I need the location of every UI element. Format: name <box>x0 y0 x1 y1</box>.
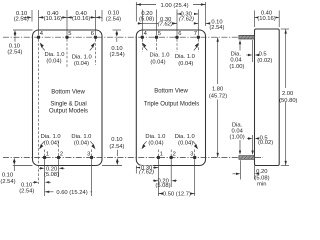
dim 0.20 min: pin tip ext <box>240 160 242 179</box>
dia leader pin3 (bottom) <box>193 141 196 144</box>
ext pin1 down <box>157 160 159 197</box>
right package bottom pin 2 <box>170 156 173 159</box>
svg-text:(10.16): (10.16) <box>44 16 62 22</box>
top pin-row centerline <box>3 36 239 38</box>
dia leader pin3 (bottom) <box>90 141 93 144</box>
ext line pin7 up <box>197 10 199 36</box>
svg-text:(0.04): (0.04) <box>46 59 61 65</box>
dia leader pin7 <box>194 47 197 50</box>
svg-text:(0.04): (0.04) <box>74 61 89 67</box>
ext line pin4 up <box>141 10 143 36</box>
dim 0.20 pins1-2: arrows outside <box>153 180 154 182</box>
ext line pin6 up <box>176 10 178 36</box>
pin3 dashed centerline up <box>91 150 93 156</box>
svg-text:1: 1 <box>46 152 49 158</box>
dim 0.40 line <box>255 16 280 18</box>
ext pin1 down <box>44 160 46 197</box>
left package outline <box>33 30 103 166</box>
svg-text:0.50 (12.7): 0.50 (12.7) <box>163 192 191 198</box>
dim 0.60 label <box>54 189 91 195</box>
svg-text:0.60 (15.24): 0.60 (15.24) <box>56 190 87 196</box>
dim 0.50 pins1-3: line <box>158 193 194 195</box>
svg-text:(0.04): (0.04) <box>74 141 89 147</box>
lower dim line (0.20 / 0.30 mid) <box>138 22 177 24</box>
dim 0.5 bottom: shoulder line <box>252 135 254 151</box>
svg-text:(0.04): (0.04) <box>178 141 193 147</box>
svg-text:(5.08): (5.08) <box>44 172 59 178</box>
svg-text:(2.54): (2.54) <box>19 189 34 195</box>
dia 0.04 bottom leader <box>239 140 241 151</box>
pin1 dashed centerline up <box>44 150 46 156</box>
dia leader pin4 <box>42 47 45 50</box>
right pkg pin2 dashed up <box>170 150 172 156</box>
right side: tick aligned with top edge <box>113 29 122 31</box>
svg-text:6: 6 <box>91 31 94 37</box>
ext line pin5 up <box>156 10 158 36</box>
side view top pin <box>239 35 255 39</box>
svg-text:(0.02): (0.02) <box>258 140 273 146</box>
dim 0.20 pins1-2: arrows outside <box>39 167 40 169</box>
svg-text:1: 1 <box>160 152 163 158</box>
ext line left edge top <box>135 2 137 22</box>
bottom pin-row centerline inside side view <box>255 157 263 159</box>
svg-text:(0.04): (0.04) <box>44 141 59 147</box>
svg-text:(7.62): (7.62) <box>139 170 154 176</box>
svg-text:Dia.: Dia. <box>231 51 242 57</box>
right pkg pin4 dashed down <box>141 39 143 52</box>
right package bottom pin 3 <box>193 156 196 159</box>
right side arrows (inside, pointing out) <box>116 30 119 34</box>
bottom pin-row centerline <box>3 157 239 159</box>
svg-text:0.5: 0.5 <box>259 52 267 58</box>
svg-text:(1.00): (1.00) <box>229 64 244 70</box>
right package top pin 4 <box>141 36 144 39</box>
svg-text:(2.54): (2.54) <box>109 144 124 150</box>
svg-text:Triple Output Models: Triple Output Models <box>144 102 199 108</box>
svg-text:(1.00): (1.00) <box>230 134 245 140</box>
dim 0.10 pin4-pin1 offset: arrows outside <box>33 181 34 183</box>
right package top pin 5 <box>155 36 158 39</box>
dim 0.50 label <box>163 191 190 197</box>
ext line pin4 up <box>38 10 40 35</box>
side view body outline <box>255 29 280 166</box>
pin4 long dashed centerline down (left pkg) <box>38 39 40 184</box>
svg-text:(2.54): (2.54) <box>14 17 29 23</box>
side view body left edge lower extension <box>253 166 255 180</box>
svg-text:7: 7 <box>194 31 197 37</box>
svg-text:(2.54): (2.54) <box>0 179 15 185</box>
svg-text:Dia. 1.0: Dia. 1.0 <box>41 134 61 140</box>
svg-text:(2.54): (2.54) <box>7 50 22 56</box>
svg-text:(10.16): (10.16) <box>72 16 90 22</box>
svg-text:(0.04): (0.04) <box>178 61 193 67</box>
svg-text:Dia. 1.0: Dia. 1.0 <box>150 53 170 59</box>
svg-text:(0.02): (0.02) <box>257 58 272 64</box>
ext left edge down <box>135 166 137 174</box>
svg-text:0.10: 0.10 <box>2 172 13 178</box>
dim 0.20 min arrows <box>233 173 236 175</box>
left package top pin 6 <box>94 36 97 39</box>
svg-text:(50.80): (50.80) <box>279 98 297 104</box>
svg-text:(7.62): (7.62) <box>179 17 194 23</box>
left package bottom pin 3 <box>90 156 93 159</box>
dim 0.30 pin6-pin7: line level A <box>177 13 198 15</box>
svg-text:Dia. 1.0: Dia. 1.0 <box>71 134 91 140</box>
svg-text:(10.16): (10.16) <box>257 16 275 22</box>
right pkg pin3 dashed up <box>194 150 196 156</box>
dim 0.10 pin7-edge: line + outside arrows <box>194 22 198 24</box>
svg-text:(2.54): (2.54) <box>106 16 121 22</box>
svg-text:Dia. 1.0: Dia. 1.0 <box>145 134 165 140</box>
right pkg pin5 dashed down <box>156 39 158 52</box>
dia leader pin6 <box>90 47 93 50</box>
right pkg pin7 dashed down <box>197 39 199 52</box>
pin6 dashed centerline down <box>95 39 97 65</box>
svg-text:Bottom View: Bottom View <box>51 90 85 96</box>
left side arrows (inside, pointing out) <box>14 30 17 34</box>
dim 0.10 vertical pin row to bottom edge (right side of left pkg) <box>102 165 122 167</box>
dim 0.30 labels <box>140 165 153 169</box>
svg-text:3: 3 <box>190 152 193 158</box>
svg-text:(2.54): (2.54) <box>209 25 224 31</box>
svg-text:0.20: 0.20 <box>256 169 267 175</box>
ext line right edge top <box>205 2 207 26</box>
dim 0.30 right labels <box>181 11 194 15</box>
dim 1.00 overall: line <box>136 4 205 6</box>
dim 0.10 top-right of left pkg: arrow left <box>96 16 103 18</box>
pin5 dashed centerline down <box>66 39 68 67</box>
dim 0.40 left: line pin4-pin5 <box>39 16 68 18</box>
right package outline <box>136 30 205 166</box>
ext line left edge top <box>31 10 33 22</box>
svg-text:(45.72): (45.72) <box>209 93 227 99</box>
svg-text:0.04: 0.04 <box>230 58 242 64</box>
dim 0.10 vertical pin row to bottom edge (left side) <box>13 165 33 167</box>
dia leader pin4 <box>145 47 148 50</box>
svg-text:(0.04): (0.04) <box>148 141 163 147</box>
dim 0.10 top-left arrow right <box>27 16 31 18</box>
ext pin2 down <box>58 160 60 178</box>
ext pin3 down <box>91 160 93 197</box>
dia 0.04 top leader <box>239 44 241 51</box>
dim 0.60 pins1-3: line <box>45 191 92 193</box>
left side: tick aligned with top edge <box>13 29 33 31</box>
ext line right edge top <box>101 10 103 22</box>
svg-text:(2.54): (2.54) <box>110 52 125 58</box>
svg-text:(7.62): (7.62) <box>158 22 173 28</box>
svg-text:Dia. 1.0: Dia. 1.0 <box>72 55 92 61</box>
dim 0.5 top: shoulder line <box>252 40 254 62</box>
svg-text:6: 6 <box>178 31 181 37</box>
svg-text:2: 2 <box>60 152 63 158</box>
side view bottom pin <box>239 156 255 160</box>
left package top pin 5 <box>65 36 68 39</box>
ext pin3 down <box>194 160 196 197</box>
svg-text:Dia. 1.0: Dia. 1.0 <box>45 52 65 58</box>
left package bottom pin 2 <box>57 156 60 159</box>
dia leader pin1 (bottom) <box>144 141 147 144</box>
dim 0.40 top: ext lines <box>254 11 256 28</box>
svg-text:5: 5 <box>158 31 161 37</box>
left package bottom pin 1 <box>43 156 46 159</box>
svg-text:3: 3 <box>87 152 90 158</box>
svg-text:5: 5 <box>68 31 71 37</box>
right pkg pin1 dashed up <box>157 150 159 156</box>
svg-text:min: min <box>257 181 266 187</box>
svg-text:(5.08): (5.08) <box>139 17 154 23</box>
svg-text:(5.08): (5.08) <box>155 183 170 189</box>
dim 0.40 right: line pin5-pin6 <box>67 16 96 18</box>
dim 2.00 line <box>285 29 287 88</box>
right package top pin 6 <box>175 36 178 39</box>
right package bottom pin 1 <box>157 156 160 159</box>
svg-text:0.10: 0.10 <box>111 137 122 143</box>
pin2 dashed centerline up <box>58 141 60 156</box>
svg-text:0.10: 0.10 <box>9 43 20 49</box>
svg-text:Output Models: Output Models <box>49 109 88 115</box>
svg-text:Single & Dual: Single & Dual <box>50 102 86 108</box>
right package top pin 7 <box>197 36 200 39</box>
svg-text:1.00 (25.4): 1.00 (25.4) <box>160 3 188 9</box>
right pkg pin6 dashed down <box>176 39 178 52</box>
svg-text:Dia. 1.0: Dia. 1.0 <box>175 54 195 60</box>
svg-text:1.80: 1.80 <box>212 86 223 92</box>
dim 2.00: ext ticks <box>281 28 289 30</box>
dim 0.30 edge-pin1: line w outward arrows <box>136 167 158 169</box>
svg-text:Dia. 1.0: Dia. 1.0 <box>175 134 195 140</box>
svg-text:0.10: 0.10 <box>21 182 32 188</box>
svg-text:(0.04): (0.04) <box>150 60 165 66</box>
ext pin2 down <box>170 160 172 188</box>
dia leader pin1 (bottom) <box>42 141 45 144</box>
svg-text:2: 2 <box>173 152 176 158</box>
ext line pin5 up <box>66 10 68 35</box>
ext line pin6 up <box>95 10 97 35</box>
svg-text:Bottom View: Bottom View <box>154 89 188 95</box>
svg-text:2.00: 2.00 <box>282 91 293 97</box>
left package top pin 4 <box>37 36 40 39</box>
